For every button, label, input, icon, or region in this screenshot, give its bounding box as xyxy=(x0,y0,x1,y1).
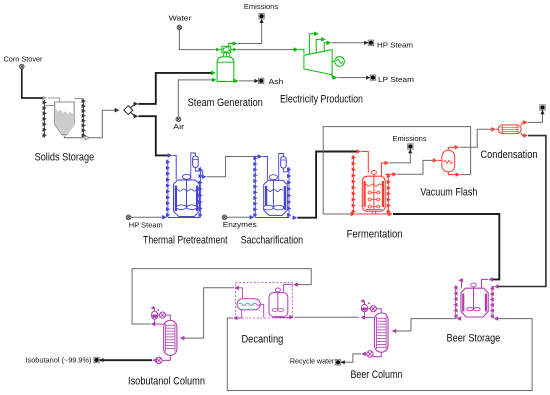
svg-text:Recycle water: Recycle water xyxy=(290,356,335,365)
wire: Air line into boiler xyxy=(178,78,216,117)
svg-text:Emissions: Emissions xyxy=(393,134,427,143)
unit: Steam Generation drum/valve block on top xyxy=(222,46,231,52)
utility line: Beer Storage left arrows xyxy=(453,285,457,318)
unit: Decanting stirred wash tank xyxy=(269,288,288,317)
wire: turbine extraction stub 2 xyxy=(316,37,326,53)
wire: Beer Storage vent stub xyxy=(458,278,463,288)
wire: flash vapor to Condensation xyxy=(448,127,498,150)
wire: Fermentation bottoms line and flash liquid return junction xyxy=(323,212,499,288)
utility line: Solids Storage left arrows xyxy=(43,100,55,138)
unit: Isobutanol Column condenser and reflux drum xyxy=(151,306,171,326)
wire: Beer Column reflux return from Decanting xyxy=(294,316,359,318)
wire: Isobutanol Column distillate recycle to Decanting xyxy=(132,269,311,324)
unit: Saccharification top flash column xyxy=(279,154,289,181)
wire: Corn Stover feed line to Solids Storage xyxy=(22,69,60,102)
svg-text:Saccharification: Saccharification xyxy=(241,234,303,246)
utility line: Thermal Pretreatment left jacket arrows xyxy=(166,160,170,218)
group box: Decanting dashed boundary xyxy=(236,283,293,319)
utility line: Saccharification left jacket arrows xyxy=(253,156,257,218)
wire: Solids Storage outlet to splitter xyxy=(64,108,119,140)
wire: Fermentation emissions to terminal xyxy=(381,134,426,176)
stream: Enzymes inlet xyxy=(222,215,257,229)
svg-text:Emissions: Emissions xyxy=(244,2,278,11)
unit: Saccharification stirred reactor xyxy=(263,175,287,216)
svg-text:Decanting: Decanting xyxy=(241,333,283,345)
wire: Decanting internal drum outlet pipe xyxy=(260,304,263,317)
wire: splitter top outlet thick line to Steam Generation xyxy=(131,71,216,108)
wire: condenser vent to top-right terminal xyxy=(521,105,546,126)
wire: Pretreatment outlet to Saccharification xyxy=(202,154,268,180)
wire: Ash outlet line and terminal xyxy=(234,77,284,86)
svg-text:Steam Generation: Steam Generation xyxy=(188,97,263,109)
unit: Isobutanol Column distillation column xyxy=(164,320,177,355)
utility line: Fermentation right jacket arrows xyxy=(387,174,391,215)
wire: Beer Storage outlet to Beer Column feed xyxy=(392,316,462,333)
wire: Steam Generation emissions line to terminal xyxy=(229,2,278,46)
unit: Isobutanol Column reboiler circle xyxy=(152,355,170,363)
unit: Beer Storage stirred tank xyxy=(461,283,488,317)
svg-text:LP Steam: LP Steam xyxy=(378,75,414,84)
unit: Thermal Pretreatment top flash column xyxy=(191,153,204,180)
stream: Corn Stover inlet symbol and label xyxy=(4,55,43,69)
unit: Beer Column reboiler circle xyxy=(361,351,381,357)
wire: steam line from boiler unit to turbine xyxy=(231,47,304,53)
wire: condensate loop down right edge to Beer Storage xyxy=(492,133,546,289)
wire: Beer Column bottoms to Recycle water terminal xyxy=(290,354,361,366)
splitter: diamond mixer/splitter block xyxy=(124,106,133,115)
wire: turbine extraction stub 1 xyxy=(309,31,318,54)
unit: Electricity Production steam turbine xyxy=(304,50,332,75)
stream: HP Steam inlet to pretreatment xyxy=(126,215,167,230)
svg-text:Isobutanol Column: Isobutanol Column xyxy=(128,376,205,388)
svg-text:Enzymes: Enzymes xyxy=(223,220,257,229)
svg-text:Air: Air xyxy=(173,122,185,131)
svg-text:Ash: Ash xyxy=(269,77,284,86)
wire: Decanting water outlet long recycle to Beer Storage xyxy=(227,310,532,391)
unit: Decanting horizontal decanter drum xyxy=(237,299,260,310)
unit: Steam Generation boiler vessel xyxy=(217,53,234,82)
svg-text:HP Steam: HP Steam xyxy=(129,221,163,230)
utility line: Thermal Pretreatment right jacket arrows xyxy=(168,167,203,218)
svg-text:Solids Storage: Solids Storage xyxy=(35,151,95,163)
utility line: Fermentation left jacket arrows xyxy=(352,155,356,214)
svg-text:Thermal Pretreatment: Thermal Pretreatment xyxy=(143,234,228,246)
svg-text:Electricity Production: Electricity Production xyxy=(280,94,363,106)
wire: Fermentation vapor to Vacuum Flash xyxy=(385,158,442,177)
unit: Condensation heat exchanger xyxy=(498,125,521,134)
unit: Beer Column condenser and reflux drum xyxy=(360,299,381,320)
unit: Vacuum Flash drum xyxy=(442,150,455,172)
svg-text:Fermentation: Fermentation xyxy=(347,229,403,241)
unit: Thermal Pretreatment stirred reactor xyxy=(174,174,200,216)
svg-text:Vacuum Flash: Vacuum Flash xyxy=(420,186,477,198)
svg-text:HP Steam: HP Steam xyxy=(377,41,413,50)
svg-text:Water: Water xyxy=(169,14,193,23)
wire: flash liquid recycle back to fermenter xyxy=(323,127,470,214)
unit: Solids Storage hopper vessel xyxy=(55,102,74,136)
svg-text:Condensation: Condensation xyxy=(481,149,538,161)
svg-text:Beer Column: Beer Column xyxy=(350,369,402,381)
svg-text:Beer Storage: Beer Storage xyxy=(447,333,501,345)
utility line: Saccharification right jacket arrows xyxy=(255,167,291,218)
utility line: Beer Storage right arrows xyxy=(490,286,494,319)
wire: Decanting internal feed pipe to wash tank xyxy=(283,282,297,292)
wire: splitter bottom outlet thick line to Thermal Pretreatment xyxy=(131,112,177,179)
svg-text:Corn Stover: Corn Stover xyxy=(4,55,43,64)
wire: Pretreatment vessel bottom stub xyxy=(190,217,192,218)
wire: Saccharification outlet thick line to Fermentation xyxy=(293,149,369,220)
wire: turbine exhaust to LP Steam terminal xyxy=(332,75,414,84)
unit: generator circle with sine symbol xyxy=(332,57,344,67)
unit: Fermentation reactor vessel xyxy=(362,171,385,215)
stream: Air inlet symbol and label xyxy=(173,117,185,131)
unit: Beer Column distillation column xyxy=(375,313,389,352)
wire: turbine extraction to HP Steam terminal xyxy=(324,40,413,51)
wire: Decanting internal tank-to-corner pipe xyxy=(273,315,294,320)
wire: Decanting organic outlet to Isobutanol Column xyxy=(180,286,243,341)
stream: Water inlet symbol and label xyxy=(169,14,193,30)
utility line: Solids Storage right arrows xyxy=(74,99,86,138)
wire: Water line into Steam Generation top unit xyxy=(179,30,222,52)
wire: Isobutanol product thick line to terminal xyxy=(26,355,153,364)
svg-text:Isobutanol (~99.9%): Isobutanol (~99.9%) xyxy=(26,355,92,364)
